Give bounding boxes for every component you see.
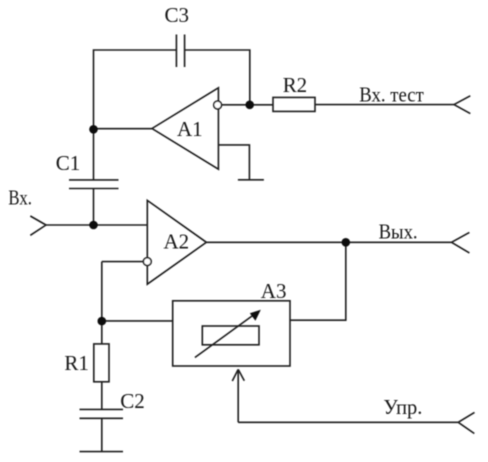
svg-text:R1: R1 (64, 351, 89, 375)
svg-text:A3: A3 (261, 279, 287, 303)
svg-text:A1: A1 (177, 117, 203, 141)
svg-text:Вх. тест: Вх. тест (359, 82, 424, 106)
svg-text:Упр.: Упр. (383, 395, 422, 419)
svg-text:C1: C1 (56, 151, 81, 175)
svg-text:Вых.: Вых. (379, 219, 418, 243)
svg-text:C3: C3 (165, 3, 190, 27)
svg-text:A2: A2 (164, 230, 190, 254)
svg-text:C2: C2 (120, 389, 145, 413)
svg-text:Вх.: Вх. (8, 186, 32, 210)
svg-text:R2: R2 (283, 73, 307, 97)
